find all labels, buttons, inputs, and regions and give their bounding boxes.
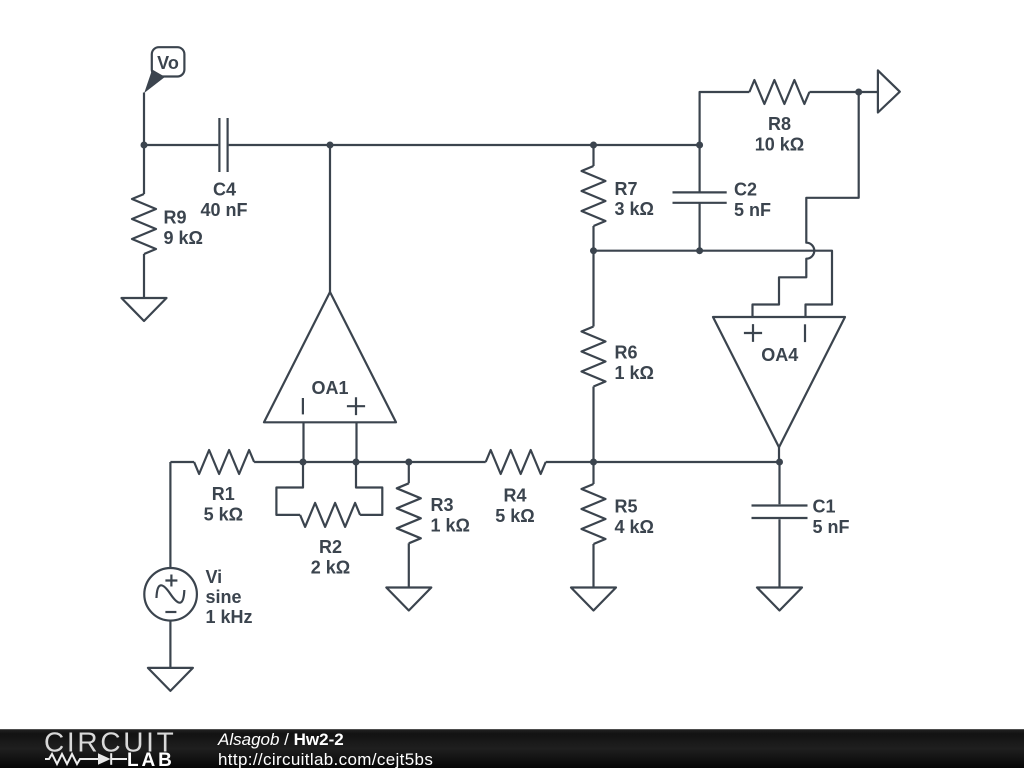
svg-text:Vi: Vi [206, 567, 223, 587]
svg-text:40 nF: 40 nF [200, 200, 247, 220]
svg-text:5 nF: 5 nF [813, 517, 850, 537]
svg-text:R8: R8 [768, 114, 791, 134]
svg-text:C2: C2 [734, 180, 757, 200]
svg-text:1 kΩ: 1 kΩ [615, 363, 654, 383]
svg-text:Alsagob / Hw2-2: Alsagob / Hw2-2 [217, 730, 344, 749]
svg-text:http://circuitlab.com/cejt5bs: http://circuitlab.com/cejt5bs [218, 750, 433, 768]
svg-text:OA1: OA1 [311, 378, 348, 398]
svg-text:9 kΩ: 9 kΩ [164, 228, 203, 248]
svg-text:5 kΩ: 5 kΩ [204, 505, 243, 525]
svg-text:R7: R7 [615, 179, 638, 199]
svg-text:R6: R6 [615, 343, 638, 363]
svg-text:R2: R2 [319, 537, 342, 557]
svg-text:C1: C1 [813, 497, 836, 517]
svg-text:4 kΩ: 4 kΩ [615, 517, 654, 537]
svg-text:Vo: Vo [157, 53, 179, 73]
svg-text:5 nF: 5 nF [734, 200, 771, 220]
svg-text:R5: R5 [615, 497, 638, 517]
svg-text:1 kΩ: 1 kΩ [431, 515, 470, 535]
svg-text:R1: R1 [212, 484, 235, 504]
svg-text:OA4: OA4 [761, 345, 798, 365]
svg-text:R9: R9 [164, 208, 187, 228]
svg-text:R3: R3 [431, 495, 454, 515]
svg-text:10 kΩ: 10 kΩ [755, 134, 804, 154]
svg-text:R4: R4 [503, 486, 526, 506]
svg-text:1 kHz: 1 kHz [206, 607, 253, 627]
svg-text:5 kΩ: 5 kΩ [495, 506, 534, 526]
svg-text:C4: C4 [213, 180, 236, 200]
svg-text:2 kΩ: 2 kΩ [311, 557, 350, 577]
svg-text:3 kΩ: 3 kΩ [615, 199, 654, 219]
svg-text:sine: sine [206, 587, 242, 607]
svg-text:LAB: LAB [127, 750, 175, 768]
